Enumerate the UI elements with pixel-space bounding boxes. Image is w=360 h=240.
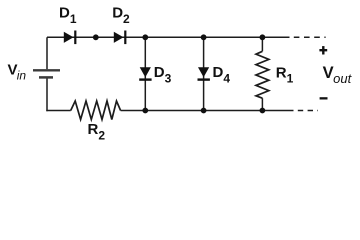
svg-text:Vin: Vin (8, 62, 27, 83)
node junction dot bottom D3 (142, 108, 148, 114)
wire bottom dashed to - terminal (298, 110, 318, 112)
svg-text:D3: D3 (154, 64, 172, 86)
wire left vertical (below battery) (46, 78, 48, 112)
battery V_in long plate (33, 69, 60, 71)
wire left vertical (top of battery) (46, 37, 48, 69)
svg-text:R2: R2 (88, 121, 106, 142)
wire bottom left to R2 (46, 110, 70, 112)
svg-text:R1: R1 (276, 64, 294, 85)
label - terminal (320, 97, 328, 99)
node junction dot D1-D2 (93, 34, 99, 40)
wire R1 top lead (261, 37, 263, 51)
wire branch D3 (144, 37, 146, 110)
diode D2 (triangle + cathode bar) (114, 31, 127, 45)
wire R1 bottom lead (261, 98, 263, 110)
diode D1 (triangle + cathode bar) (64, 31, 77, 45)
svg-text:D4: D4 (213, 64, 231, 86)
node junction dot top R1 (260, 34, 266, 40)
svg-text:D1: D1 (59, 4, 77, 26)
resistor R1 zigzag (256, 51, 269, 98)
node junction dot top D3 (142, 34, 148, 40)
node junction dot bottom D4 (201, 108, 207, 114)
node junction dot top D4 (201, 34, 207, 40)
svg-text:D2: D2 (112, 4, 130, 26)
label + terminal (319, 46, 327, 54)
wire bottom R2 to dashes (121, 110, 294, 112)
svg-text:Vout: Vout (323, 64, 353, 86)
node junction dot bottom R1 (260, 108, 266, 114)
diode D3 (triangle + cathode bar, pointing down) (139, 67, 151, 81)
resistor R2 zigzag (71, 101, 121, 120)
wire top horizontal (47, 36, 290, 38)
battery V_in short plate (39, 76, 53, 79)
wire top dashed to + terminal (294, 36, 326, 38)
diode D4 (triangle + cathode bar, pointing down) (198, 67, 210, 81)
wire branch D4 (203, 37, 205, 110)
